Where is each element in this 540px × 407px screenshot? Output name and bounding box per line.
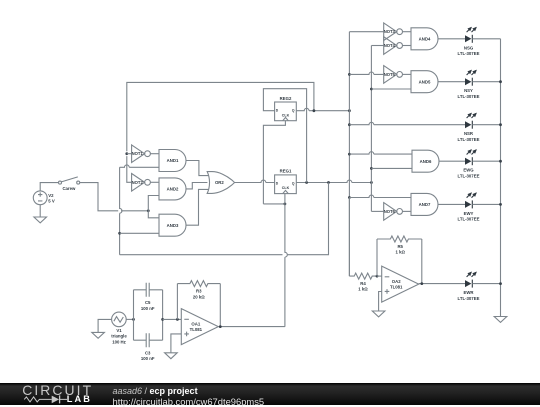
junction node cap block right xyxy=(161,318,164,321)
svg-text:REG1: REG1 xyxy=(280,169,292,174)
wire R4 to OA2 inverting input xyxy=(377,275,382,277)
resistor R5 (1 k&#937;) xyxy=(377,236,422,242)
NOT gate NOT4 xyxy=(384,37,403,55)
svg-text:LTL-307EE: LTL-307EE xyxy=(458,137,480,142)
svg-text:EWG: EWG xyxy=(463,168,474,173)
OR gate OR2 xyxy=(207,172,234,194)
wire REG1 Q out (hops left bus) xyxy=(296,180,371,182)
wire capacitor block left/top/right/bottom frame xyxy=(134,290,163,340)
wire REG1.Q branch long horizontal xyxy=(120,254,283,256)
wire NOT2 out to AND2 input A xyxy=(150,181,159,183)
AND gate AND1 xyxy=(159,150,186,172)
switch SW1 (Carew) xyxy=(59,177,80,184)
wire OA2 out to LED EWR xyxy=(419,283,465,285)
svg-text:AND5: AND5 xyxy=(419,79,431,84)
svg-text:20 kΩ: 20 kΩ xyxy=(193,294,205,299)
junction rail at y=204.4 xyxy=(499,203,502,206)
wire OA2 + input to ground xyxy=(379,292,382,312)
svg-text:EWY: EWY xyxy=(464,211,474,216)
svg-text:AND2: AND2 xyxy=(167,187,179,192)
wire NOT6 out to AND7 input B xyxy=(403,210,412,212)
wire LED EWG to rail xyxy=(472,160,500,162)
wire left bus to AND6 input A (hops right bus) xyxy=(349,152,412,154)
AND gate AND4 xyxy=(411,28,438,50)
wire AND2 out to OR2 input 2 xyxy=(186,183,207,189)
wire AND7 out to LED EWY xyxy=(438,203,465,205)
junction node left bus to AND7 xyxy=(348,196,351,199)
svg-text:NOT2: NOT2 xyxy=(132,180,144,185)
wire AND3 out to OR2 input 3 xyxy=(186,189,209,225)
svg-text:REG2: REG2 xyxy=(280,96,292,101)
LED D_NSG (NSG LTL-307EE) xyxy=(458,27,480,56)
junction node right bus to AND5 xyxy=(370,88,373,91)
junction node R3 tap xyxy=(176,318,179,321)
wire R5 down to OA2 output xyxy=(421,239,423,284)
wire V1 to capacitor block xyxy=(126,318,133,320)
op-amp OA1 (OA1 TL081) xyxy=(181,309,218,345)
svg-text:LTL-307EE: LTL-307EE xyxy=(458,94,480,99)
svg-text:OA1: OA1 xyxy=(191,321,200,326)
svg-text:CLK: CLK xyxy=(282,113,290,117)
wire AND1 input B from REG1.Q branch (hops NOT bus) xyxy=(120,165,159,167)
NOT gate NOT3 xyxy=(384,23,403,41)
svg-text:AND1: AND1 xyxy=(167,158,179,163)
wire NOT5 out to AND5 input A xyxy=(403,73,412,75)
voltage source V2 (5 V) xyxy=(33,191,47,205)
junction rail at y=161.2 xyxy=(499,160,502,163)
wire to NOT2 input xyxy=(127,156,132,182)
wire to NOT1 input xyxy=(127,153,132,155)
svg-text:C5: C5 xyxy=(145,300,151,305)
junction node REG2.Q to left bus xyxy=(348,109,351,112)
AND gate AND6 xyxy=(412,150,439,172)
AND gate AND7 xyxy=(411,193,438,215)
wire OR2 out to REG1 D (hops CLK line) xyxy=(234,180,274,182)
junction node left bus to AND6 xyxy=(348,153,351,156)
svg-text:NSG: NSG xyxy=(464,45,474,50)
wire to AND2 input B xyxy=(148,196,159,211)
junction node left bus to NOT5 xyxy=(348,73,351,76)
ground under OA2 xyxy=(372,311,385,317)
wire AND1 out to OR2 input 1 xyxy=(186,161,209,176)
wire LED NSR to rail xyxy=(472,124,500,126)
svg-text:100 Hz: 100 Hz xyxy=(112,340,126,345)
svg-text:CLK: CLK xyxy=(282,186,290,190)
D flip-flop REG1 xyxy=(275,169,297,194)
junction node AND3 input B branch xyxy=(118,232,121,235)
wire LED EWY to rail xyxy=(472,203,500,205)
wire LED NSG to rail xyxy=(472,38,500,40)
D flip-flop REG2 xyxy=(275,96,297,121)
svg-text:D: D xyxy=(276,182,279,186)
svg-text:OA2: OA2 xyxy=(392,279,401,284)
svg-text:5 V: 5 V xyxy=(48,199,55,204)
ground rail ground xyxy=(494,317,507,323)
svg-text:LTL-307EE: LTL-307EE xyxy=(458,296,480,301)
wire AND4 out to LED NSG xyxy=(438,38,465,40)
svg-text:TL081: TL081 xyxy=(390,285,403,290)
footer text line 2 xyxy=(113,396,265,407)
wire AND5 out to LED NSY xyxy=(438,81,465,83)
junction node REG2.Q loop xyxy=(313,109,316,112)
junction node left bus to NSR xyxy=(348,123,351,126)
wire CLK line down to OA1 output (hops REG1.Q branch) xyxy=(285,204,287,327)
ground under V1 xyxy=(92,332,105,338)
svg-text:LTL-307EE: LTL-307EE xyxy=(458,217,480,222)
capacitor C3 (100 nF) xyxy=(146,333,149,347)
junction switch bus tee xyxy=(147,209,150,212)
wire LED NSY to rail xyxy=(472,81,500,83)
svg-text:Q: Q xyxy=(292,109,295,113)
wire left bus to AND7 input A (hops right bus) xyxy=(349,195,411,197)
wire left bus down to R4 xyxy=(348,198,350,277)
junction node OA2 inverting input xyxy=(376,275,379,278)
wire NOT4 out to AND4 input B xyxy=(403,45,412,47)
capacitor C5 (100 nF) xyxy=(146,283,149,297)
svg-text:Carew: Carew xyxy=(62,186,76,191)
wire vertical REG1.Q branch (hops switch bus) xyxy=(120,167,122,254)
wire right bus to AND5 input B xyxy=(371,88,411,90)
AND gate AND2 xyxy=(159,178,186,200)
svg-text:V2: V2 xyxy=(48,193,54,198)
wire LED cathode rail xyxy=(500,39,502,317)
svg-text:NOT4: NOT4 xyxy=(384,43,396,48)
svg-text:NOT6: NOT6 xyxy=(384,209,396,214)
footer bar xyxy=(0,383,540,405)
svg-text:NOT1: NOT1 xyxy=(132,151,144,156)
wire switch to logic bus xyxy=(80,183,119,211)
svg-text:OR2: OR2 xyxy=(215,180,224,185)
ground under OA1 xyxy=(165,353,178,359)
junction rail at y=283.6 xyxy=(499,282,502,285)
junction node REG1.Q feedback xyxy=(305,181,308,184)
svg-text:TL081: TL081 xyxy=(190,327,203,332)
junction node CLK join xyxy=(284,203,287,206)
wire NOT1 out to AND1 input A xyxy=(150,153,159,155)
wire switch bus to AND2/AND3 tee xyxy=(121,210,148,212)
junction node OA1 output xyxy=(219,325,222,328)
junction node REG1.Q to right bus xyxy=(370,181,373,184)
svg-text:Q: Q xyxy=(292,182,295,186)
wire CLK join horizontal xyxy=(263,203,285,205)
svg-text:1 kΩ: 1 kΩ xyxy=(395,250,405,255)
wire right bus to AND6 input B xyxy=(371,167,412,169)
svg-text:V1: V1 xyxy=(116,328,122,333)
svg-text:NOT5: NOT5 xyxy=(384,72,396,77)
junction node REG1.Q down branch xyxy=(327,181,330,184)
wire caps to OA1 inverting input xyxy=(163,318,182,320)
wire left bus top to NOT3 xyxy=(349,31,383,33)
wire REG2.Q feedback loop to NOT1/NOT2 xyxy=(127,82,314,151)
wire V2 to ground xyxy=(39,205,41,217)
svg-text:NSY: NSY xyxy=(464,88,473,93)
svg-text:100 nF: 100 nF xyxy=(141,306,155,311)
wire to REG1 CLK notch xyxy=(284,194,286,204)
svg-text:R5: R5 xyxy=(397,244,403,249)
wire V2 top to switch xyxy=(40,183,58,191)
svg-text:R3: R3 xyxy=(196,289,202,294)
wire OA1 output to CLK riser xyxy=(218,326,285,328)
footer text line 1 xyxy=(113,386,198,396)
svg-text:1 kΩ: 1 kΩ xyxy=(358,287,368,292)
NOT gate NOT1 xyxy=(132,145,151,163)
AND gate AND5 xyxy=(411,71,438,93)
ground under V2 xyxy=(34,217,47,223)
wire left bus to NOT5 (hops right bus) xyxy=(349,72,383,74)
wire AND6 out to LED EWG xyxy=(439,160,465,162)
svg-text:AND6: AND6 xyxy=(420,159,432,164)
wire to AND3 input B xyxy=(120,232,159,234)
svg-text:LTL-307EE: LTL-307EE xyxy=(458,174,480,179)
svg-text:NSR: NSR xyxy=(464,131,474,136)
svg-text:C3: C3 xyxy=(145,350,151,355)
svg-text:R4: R4 xyxy=(360,281,366,286)
AND gate AND3 xyxy=(159,214,186,236)
resistor R4 (1 k&#937;) xyxy=(349,273,377,279)
wire up to R3 xyxy=(176,284,178,320)
wire R3 down to OA1 output xyxy=(219,284,221,327)
LED D_EWR (EWR LTL-307EE) xyxy=(458,272,480,301)
wire right bus bottom to NOT6 xyxy=(371,210,383,212)
node left bus (REG2.Q distribution) xyxy=(348,32,350,276)
wire OA1 + input to ground xyxy=(171,334,181,353)
junction node right bus to AND6 xyxy=(370,167,373,170)
LED D_EWY (EWY LTL-307EE) xyxy=(458,192,480,221)
svg-text:AND3: AND3 xyxy=(167,223,179,228)
LED D_NSR (NSR LTL-307EE) xyxy=(458,113,480,142)
svg-text:AND4: AND4 xyxy=(419,37,431,42)
NOT gate NOT5 xyxy=(384,66,403,84)
wire V1 to ground xyxy=(98,319,112,332)
wire right bus top to NOT4 xyxy=(371,45,383,47)
NOT gate NOT6 xyxy=(384,203,403,221)
resistor R3 (20 k&#937;) xyxy=(177,281,220,287)
junction rail at y=124.7 xyxy=(499,123,502,126)
LED D_EWG (EWG LTL-307EE) xyxy=(458,149,480,178)
junction rail at y=81.7 xyxy=(499,80,502,83)
junction node cap block left xyxy=(132,318,135,321)
wire REG1.Q to REG2.D feedback loop xyxy=(263,89,306,183)
LED D_NSY (NSY LTL-307EE) xyxy=(458,70,480,99)
svg-text:D: D xyxy=(276,109,279,113)
svg-text:LTL-307EE: LTL-307EE xyxy=(458,51,480,56)
wire LED EWR to rail xyxy=(472,283,500,285)
junction node OA2 output xyxy=(420,282,423,285)
svg-text:AND7: AND7 xyxy=(419,202,431,207)
node right bus (REG1.Q distribution) xyxy=(370,46,372,212)
wire up to R5 xyxy=(376,239,378,276)
voltage source V1 (triangle 100 Hz) xyxy=(112,312,127,327)
wire REG2 CLK down-left xyxy=(263,121,285,204)
svg-text:NOT3: NOT3 xyxy=(384,29,396,34)
svg-text:EWR: EWR xyxy=(463,290,474,295)
wire to AND3 input A xyxy=(148,211,159,218)
op-amp OA2 (OA2 TL081) xyxy=(382,266,419,302)
CircuitLab logo xyxy=(15,378,125,405)
junction node NOT1 branch xyxy=(125,152,128,155)
svg-text:LAB: LAB xyxy=(67,394,92,404)
wire left bus to LED NSR (hops right bus) xyxy=(349,122,465,124)
wire REG2 Q out (hops feedback) xyxy=(296,108,349,110)
svg-text:100 nF: 100 nF xyxy=(141,356,155,361)
svg-text:triangle: triangle xyxy=(111,334,127,339)
NOT gate NOT2 xyxy=(132,174,151,192)
wire NOT3 out to AND4 input A xyxy=(403,31,412,33)
wire REG1.Q branch down and left xyxy=(287,183,328,255)
